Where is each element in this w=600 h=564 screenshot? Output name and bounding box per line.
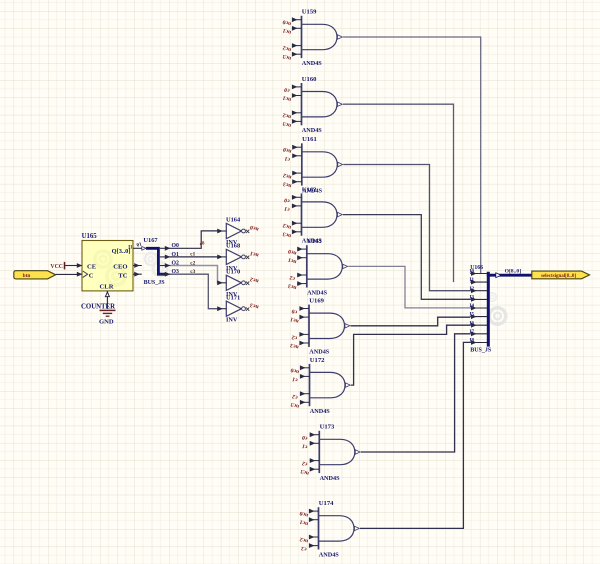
svg-text:U174: U174 <box>319 500 334 507</box>
svg-text:U173: U173 <box>320 424 335 431</box>
svg-text:I4: I4 <box>470 304 475 309</box>
svg-text:I0: I0 <box>470 270 475 275</box>
AND gate U159 <box>282 9 342 67</box>
wire U173 out to I7 <box>361 334 470 452</box>
svg-text:INV: INV <box>226 317 238 324</box>
svg-text:U161: U161 <box>302 136 317 143</box>
svg-text:U159: U159 <box>302 9 317 16</box>
svg-text:VCC: VCC <box>50 264 63 270</box>
svg-text:CEO: CEO <box>113 264 127 271</box>
bus joiner U166 <box>470 265 532 353</box>
svg-text:U164: U164 <box>226 217 241 224</box>
bus joiner U167 <box>142 237 179 286</box>
svg-text:U163: U163 <box>307 238 322 245</box>
svg-text:I1: I1 <box>470 278 475 283</box>
watermark gear near U167 <box>144 252 169 278</box>
svg-text:AND4S: AND4S <box>302 127 322 134</box>
wire U160 out to I1 <box>343 104 454 282</box>
port selectsignal[8..0] <box>532 271 590 279</box>
power port VCC <box>50 262 64 270</box>
AND gate U172 <box>290 357 350 415</box>
svg-text:I7: I7 <box>470 330 475 335</box>
svg-text:U165: U165 <box>82 233 98 240</box>
wire O3 to U171 input <box>170 274 218 309</box>
wire U161 out to I2 <box>343 165 470 291</box>
svg-text:c2: c2 <box>190 260 195 266</box>
AND gate U174 <box>299 500 359 558</box>
AND gate U162 <box>282 186 342 244</box>
svg-text:btn: btn <box>23 273 31 279</box>
svg-text:I3: I3 <box>470 296 475 301</box>
svg-text:U169: U169 <box>309 298 324 305</box>
svg-text:U170: U170 <box>226 269 240 276</box>
wire U172 out to I6 <box>351 325 470 385</box>
svg-text:I5: I5 <box>470 313 475 318</box>
svg-text:c1: c1 <box>190 252 195 258</box>
svg-text:I8: I8 <box>470 339 475 344</box>
svg-text:U172: U172 <box>310 357 325 364</box>
inverter U164 <box>218 217 250 246</box>
svg-text:AND4S: AND4S <box>309 349 329 356</box>
svg-text:AND4S: AND4S <box>307 289 327 296</box>
svg-text:CE: CE <box>87 264 97 271</box>
wire U174 out to I8 <box>360 342 470 528</box>
ground symbol GND <box>99 310 116 325</box>
watermark gear near U166 <box>487 292 508 326</box>
svg-text:CLR: CLR <box>100 284 114 291</box>
port btn <box>14 271 56 279</box>
wire O1 to U168 input <box>170 256 218 258</box>
svg-text:c3: c3 <box>190 269 195 275</box>
svg-text:U168: U168 <box>226 243 240 250</box>
AND gate U163 <box>287 238 347 296</box>
wire U169 out to I5 <box>351 317 471 326</box>
svg-text:COUNTER: COUNTER <box>81 304 115 311</box>
svg-text:AND4S: AND4S <box>320 475 340 482</box>
wire O0 to U164 input <box>170 231 218 248</box>
counter U165 <box>77 233 146 309</box>
wire O2 to U170 input <box>170 266 218 283</box>
svg-text:AND4S: AND4S <box>319 551 339 558</box>
AND gate U161 <box>282 136 342 194</box>
svg-text:AND4S: AND4S <box>310 408 330 415</box>
wire U163 out to I4 <box>348 266 470 308</box>
AND gate U173 <box>300 424 360 482</box>
svg-text:I2: I2 <box>470 287 475 292</box>
svg-text:U160: U160 <box>302 76 317 83</box>
svg-text:I6: I6 <box>470 321 475 326</box>
inverter U170 <box>218 269 250 298</box>
svg-text:AND4S: AND4S <box>302 60 322 67</box>
svg-text:TC: TC <box>118 273 127 280</box>
svg-text:C: C <box>89 273 94 280</box>
wire btn to C pin <box>56 273 78 275</box>
svg-text:selectsignal[8..0]: selectsignal[8..0] <box>541 274 576 279</box>
AND gate U169 <box>289 298 349 356</box>
wire VCC to CE pin <box>65 265 78 267</box>
AND gate U160 <box>282 76 342 134</box>
svg-text:U171: U171 <box>226 294 240 301</box>
svg-text:O[8..0]: O[8..0] <box>505 269 522 275</box>
wire U162 out to I3 <box>343 215 470 300</box>
wire U159 out to I0 <box>343 37 481 274</box>
inverter U168 <box>218 243 250 272</box>
svg-text:GND: GND <box>99 319 114 326</box>
svg-text:BUS_JS: BUS_JS <box>144 280 166 286</box>
inverter U171 <box>218 294 250 323</box>
svg-text:I1: I1 <box>128 245 133 250</box>
svg-text:U167: U167 <box>143 237 158 244</box>
svg-text:U162: U162 <box>302 186 317 193</box>
svg-text:BUS_JS: BUS_JS <box>470 347 492 353</box>
